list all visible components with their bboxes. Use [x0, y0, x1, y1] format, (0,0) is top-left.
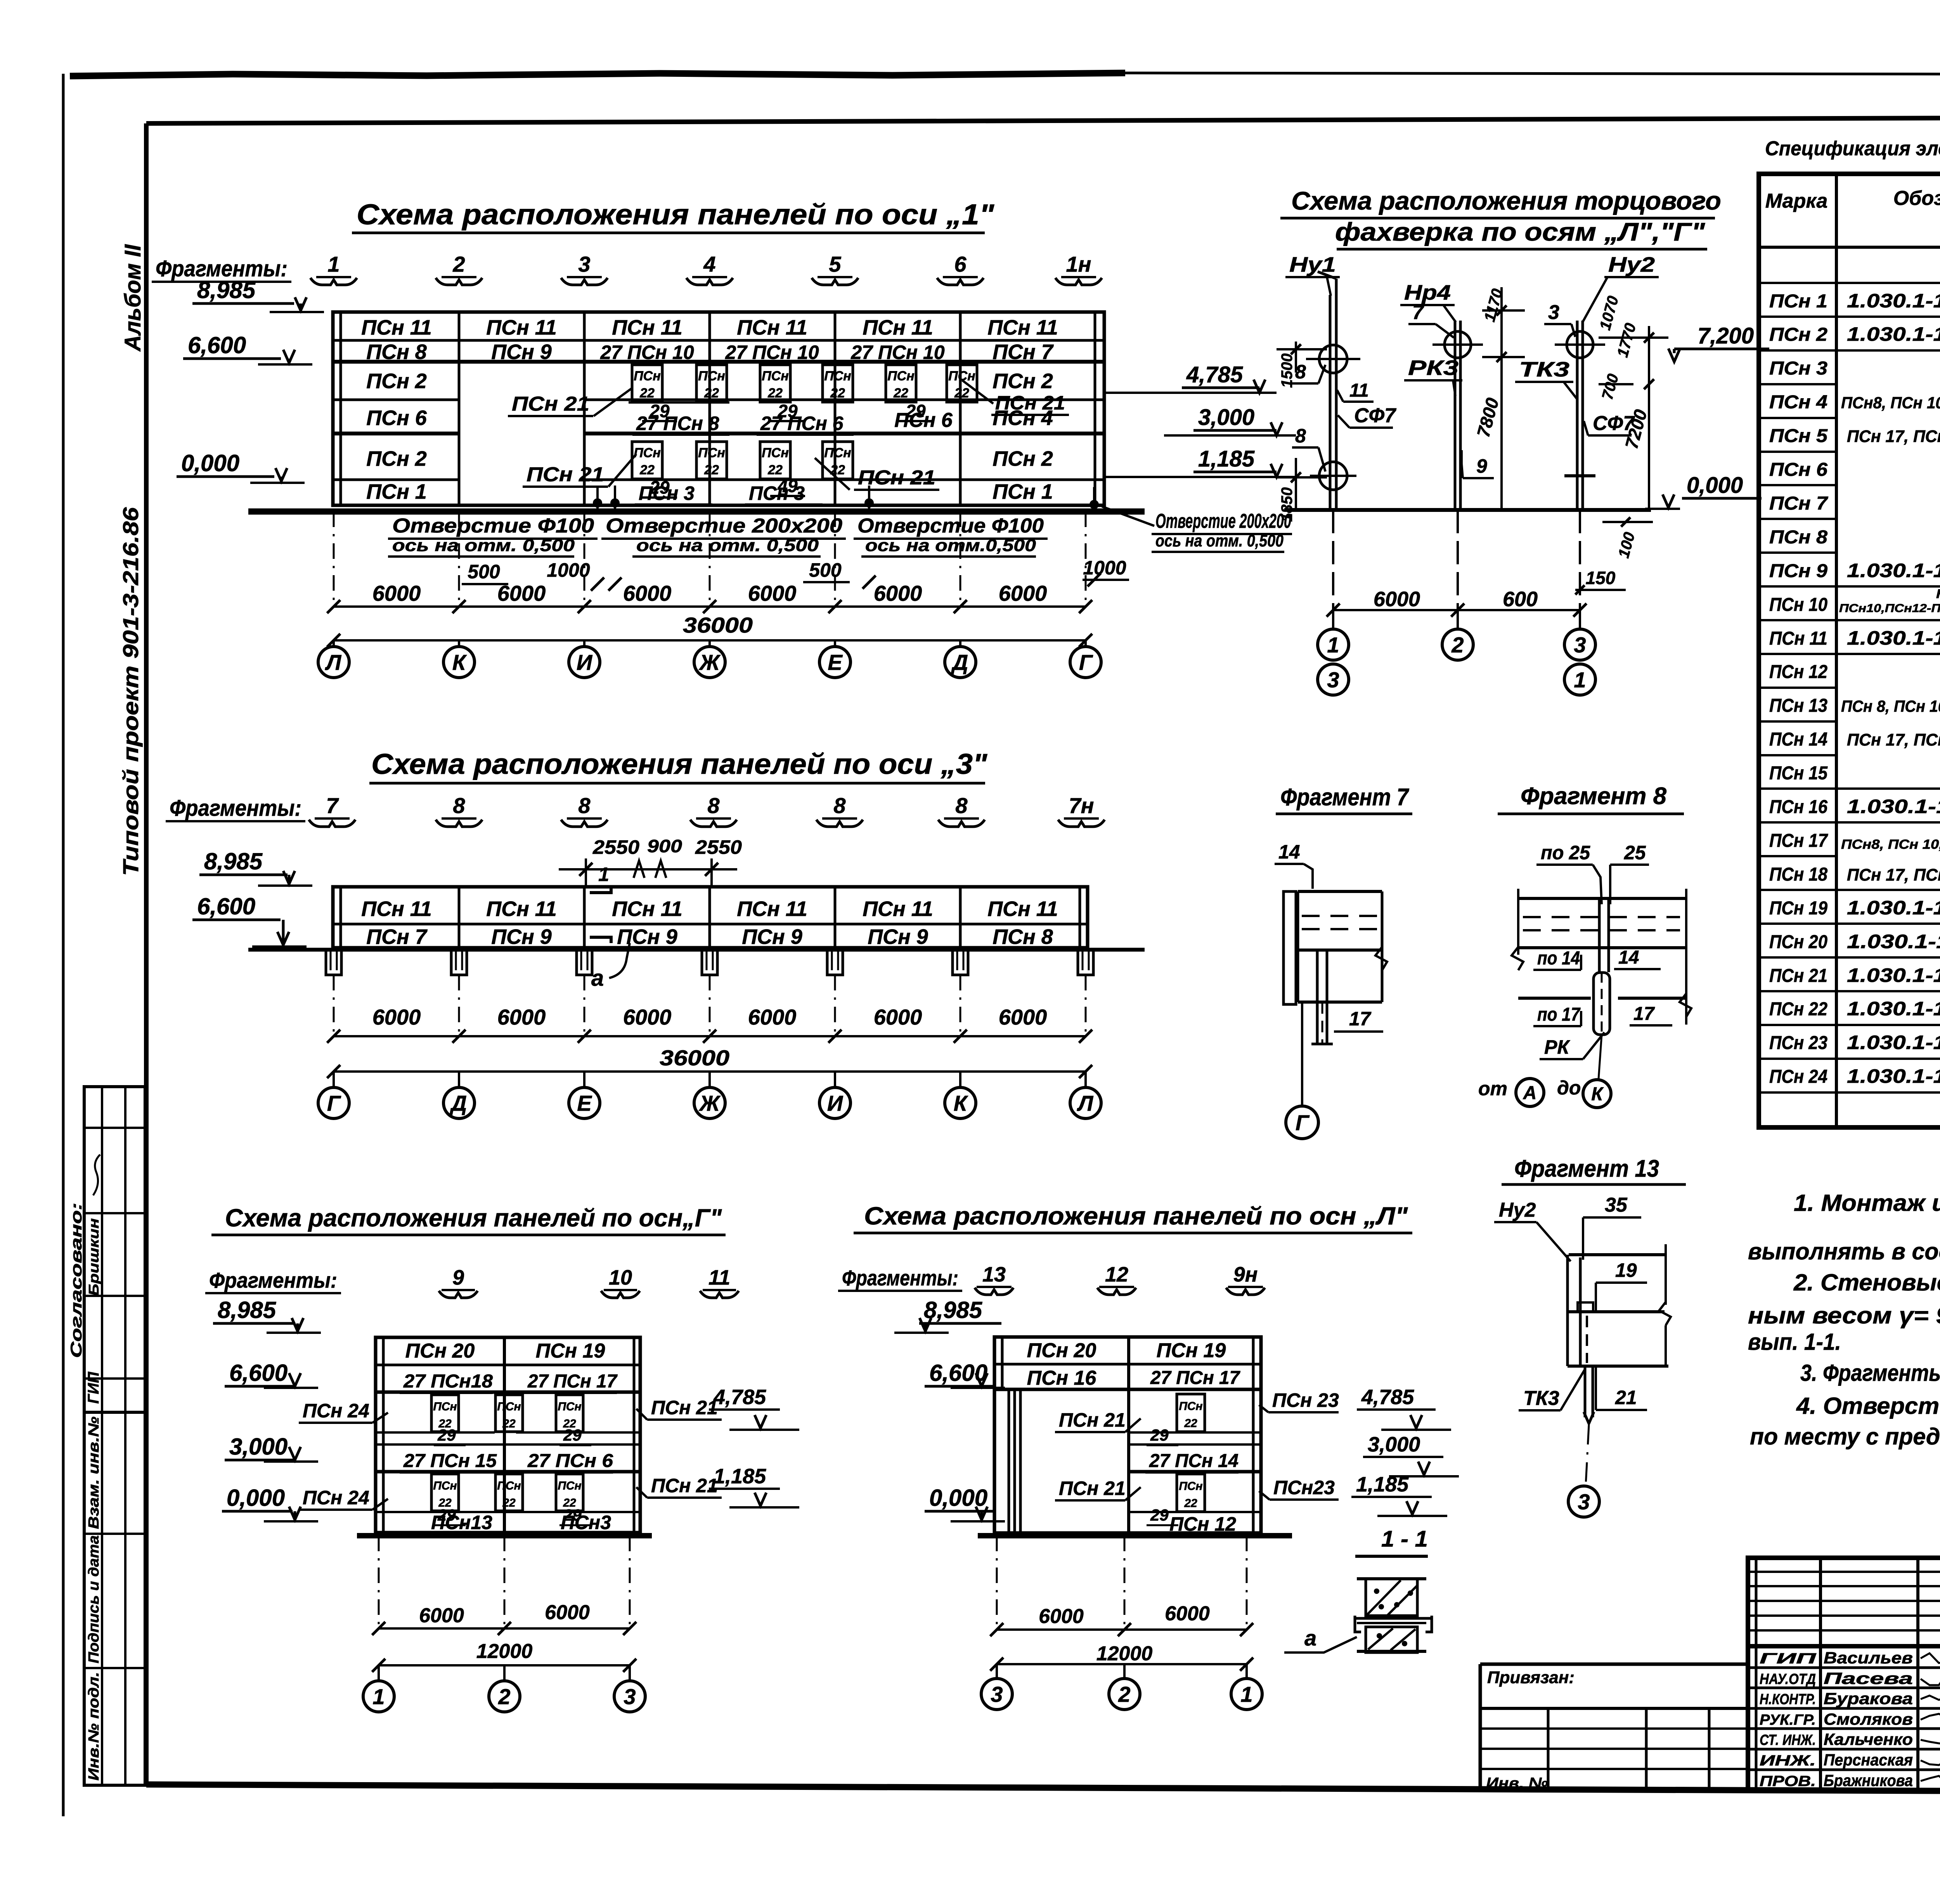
svg-text:22: 22 [767, 386, 783, 401]
spec table data row lines [1759, 316, 1836, 318]
svg-text:ПСн 9: ПСн 9 [1769, 561, 1827, 581]
fragment 8 center joint [1598, 898, 1601, 972]
svg-text:ПСн 22: ПСн 22 [1769, 999, 1827, 1020]
svg-text:по месту с предварительной рас: по месту с предварительной рассверловкой… [1750, 1424, 1940, 1450]
svg-text:ПСн 14: ПСн 14 [1769, 729, 1827, 750]
svg-text:27 ПСн 8: 27 ПСн 8 [636, 413, 719, 434]
svg-text:3: 3 [1578, 1490, 1590, 1514]
sheet outer edge left [62, 74, 65, 1816]
svg-text:ПСн23: ПСн23 [1273, 1477, 1335, 1498]
svg-text:Фрагмент 7: Фрагмент 7 [1280, 784, 1409, 811]
svg-text:Е: Е [828, 650, 843, 675]
fragment 13 panel block [1569, 1253, 1666, 1256]
svg-text:Д: Д [450, 1091, 467, 1115]
svg-text:Спецификация элементов к схеме: Спецификация элементов к схеме расположе… [1765, 137, 1940, 160]
svg-text:27 ПСн18: 27 ПСн18 [403, 1371, 493, 1392]
svg-text:1: 1 [598, 864, 609, 885]
svg-text:ПСн 7: ПСн 7 [366, 925, 428, 949]
svg-text:1.030.1-1 вып. 1-1: 1.030.1-1 вып. 1-1 [1847, 998, 1940, 1020]
svg-text:ТК3: ТК3 [1519, 358, 1569, 381]
svg-text:ПСн 2: ПСн 2 [993, 447, 1053, 470]
axis-G window band2 [431, 1474, 459, 1511]
svg-text:ПСн 12: ПСн 12 [1169, 1513, 1236, 1535]
svg-text:ПСн 23: ПСн 23 [1272, 1389, 1339, 1411]
svg-text:ПСн: ПСн [634, 446, 661, 460]
svg-text:Альбом II: Альбом II [120, 244, 145, 352]
fragment 13 axis line [1586, 1425, 1589, 1484]
svg-text:0,000: 0,000 [227, 1485, 285, 1511]
svg-text:ПСн 17, ПСн 18.: ПСн 17, ПСн 18. [1847, 427, 1940, 446]
section 1-1 lower panel [1366, 1627, 1417, 1653]
svg-text:РК3: РК3 [1408, 356, 1458, 380]
svg-text:6000: 6000 [372, 1005, 421, 1029]
spec table column lines [1835, 174, 1838, 1127]
svg-text:6000: 6000 [545, 1601, 590, 1624]
svg-text:А: А [1523, 1083, 1537, 1103]
svg-text:6000: 6000 [748, 581, 797, 605]
svg-text:1: 1 [372, 1684, 385, 1709]
svg-text:Ну1: Ну1 [1289, 253, 1336, 276]
svg-text:Фрагменты:: Фрагменты: [170, 796, 301, 821]
svg-text:Васильев: Васильев [1824, 1649, 1913, 1667]
svg-text:ПСн 6: ПСн 6 [366, 406, 427, 430]
svg-text:1000: 1000 [1083, 557, 1126, 579]
axis-3 strip bottom line [248, 948, 1145, 952]
svg-text:3. Фрагменты 1-6, 9-12 приведе: 3. Фрагменты 1-6, 9-12 приведены на лист… [1800, 1360, 1940, 1386]
svg-text:ПСн 11: ПСн 11 [987, 316, 1058, 339]
svg-text:6000: 6000 [1165, 1602, 1210, 1625]
svg-text:22: 22 [639, 386, 655, 401]
svg-text:150: 150 [1586, 568, 1616, 588]
fragment 8 column cap [1594, 973, 1610, 1035]
svg-text:10: 10 [609, 1266, 632, 1289]
svg-text:1850: 1850 [1278, 487, 1296, 522]
svg-text:4: 4 [703, 252, 715, 276]
svg-text:ПСн 21: ПСн 21 [527, 463, 604, 486]
svg-text:29: 29 [777, 401, 798, 421]
svg-text:СФ7: СФ7 [1354, 404, 1396, 427]
svg-text:вып. 1-1.: вып. 1-1. [1748, 1329, 1841, 1355]
axis-G axis dashed drops [378, 1536, 380, 1628]
fakhverk dim 100 [1602, 521, 1653, 523]
svg-text:Отверстие 200х200: Отверстие 200х200 [606, 515, 842, 537]
axis-1 elevation outline [333, 312, 1104, 505]
svg-text:ПСн 17: ПСн 17 [1769, 831, 1828, 851]
svg-text:ПСн 11: ПСн 11 [863, 897, 933, 921]
fakhverk col1 joint circles [1319, 345, 1347, 373]
svg-text:ПСн8, ПСн 10, ПСн12 - ПСн15,: ПСн8, ПСн 10, ПСн12 - ПСн15, [1841, 394, 1940, 412]
svg-text:2: 2 [452, 252, 465, 276]
svg-text:8: 8 [955, 793, 968, 818]
svg-text:6,600: 6,600 [197, 893, 255, 919]
svg-text:22: 22 [830, 386, 845, 401]
svg-text:Л: Л [1077, 1091, 1094, 1115]
svg-text:27 ПСн 17: 27 ПСн 17 [1150, 1368, 1240, 1388]
svg-text:6000: 6000 [1374, 588, 1420, 611]
svg-text:27 ПСн 10: 27 ПСн 10 [725, 342, 819, 363]
svg-text:Обозначение: Обозначение [1893, 187, 1940, 210]
svg-text:3,000: 3,000 [1368, 1433, 1420, 1456]
svg-text:6000: 6000 [874, 581, 922, 605]
svg-text:6000: 6000 [419, 1604, 464, 1627]
svg-text:Ну2: Ну2 [1608, 253, 1655, 276]
svg-text:1: 1 [1327, 633, 1339, 657]
svg-text:ПСн 2: ПСн 2 [1769, 324, 1827, 345]
svg-text:2: 2 [1451, 633, 1464, 657]
svg-text:Бришкин: Бришкин [86, 1218, 102, 1296]
fragment 7 axis circle Г [1286, 1106, 1318, 1139]
svg-text:Фрагмент 8: Фрагмент 8 [1521, 783, 1667, 810]
svg-text:21: 21 [1615, 1387, 1637, 1408]
svg-text:ПСн 21: ПСн 21 [512, 393, 589, 415]
svg-text:29: 29 [649, 401, 670, 421]
svg-text:3,000: 3,000 [229, 1434, 288, 1460]
svg-text:1,185: 1,185 [1198, 446, 1255, 472]
axis-G window band1 [431, 1395, 459, 1432]
svg-text:4,785: 4,785 [1186, 362, 1243, 387]
svg-text:1.030.1-1 вып.1-1: 1.030.1-1 вып.1-1 [1847, 796, 1940, 817]
svg-text:22: 22 [639, 463, 655, 477]
svg-text:1.030.1-1 вып. 1-1: 1.030.1-1 вып. 1-1 [1847, 323, 1940, 345]
axis-L axis circles [996, 1664, 998, 1679]
svg-text:Схема расположения панелей по: Схема расположения панелей по оси „1" [357, 198, 994, 231]
axis-G axis circles [378, 1665, 380, 1681]
svg-text:ПСн10,ПСн12-ПСн13,ПСн 17,ПСн 1: ПСн10,ПСн12-ПСн13,ПСн 17,ПСн 18 [1839, 602, 1940, 615]
svg-text:ПСн 3: ПСн 3 [749, 482, 805, 504]
svg-text:ПСн 1: ПСн 1 [366, 480, 427, 503]
svg-text:ПСн 17, ПСн 18: ПСн 17, ПСн 18 [1847, 730, 1940, 749]
svg-text:12000: 12000 [1096, 1642, 1153, 1665]
svg-text:27 ПСн 6: 27 ПСн 6 [760, 413, 844, 434]
svg-text:ПСн: ПСн [433, 1400, 457, 1413]
svg-text:ПСн 16: ПСн 16 [1769, 797, 1827, 817]
svg-text:Согласовано:: Согласовано: [68, 1203, 85, 1358]
fragment 7 column below [1316, 950, 1319, 1044]
svg-text:8,985: 8,985 [218, 1297, 277, 1323]
svg-text:900: 900 [647, 836, 682, 856]
svg-text:ным весом γ= 900 кг/м³ толщнно: ным весом γ= 900 кг/м³ толщнной 250мм по… [1748, 1302, 1940, 1328]
svg-text:СТ. ИНЖ.: СТ. ИНЖ. [1760, 1732, 1816, 1748]
axis-1 row lines [333, 339, 1104, 342]
axis-L opening struts [1008, 1389, 1010, 1533]
fakhverk below-base columns [1332, 510, 1334, 610]
fragment 13 column below [1584, 1366, 1587, 1417]
svg-text:Смоляков: Смоляков [1824, 1710, 1913, 1728]
fakhverk axis circles row2 [1318, 664, 1349, 695]
svg-text:ПСн 21: ПСн 21 [1769, 966, 1827, 986]
svg-text:ПСн: ПСн [762, 446, 789, 460]
svg-text:ПСн 19: ПСн 19 [536, 1340, 605, 1362]
svg-text:ПСн 4: ПСн 4 [1769, 392, 1827, 413]
svg-text:14: 14 [1618, 947, 1639, 968]
fakhverk base line [1284, 508, 1651, 512]
svg-text:Е: Е [577, 1091, 592, 1115]
svg-text:Отверстие Ф100: Отверстие Ф100 [857, 515, 1044, 537]
axis-3 panel strip [333, 887, 1088, 948]
svg-text:14: 14 [1278, 841, 1300, 863]
svg-text:РК: РК [1544, 1036, 1570, 1058]
svg-text:12000: 12000 [476, 1640, 533, 1663]
svg-text:22: 22 [767, 463, 783, 477]
svg-text:2550: 2550 [592, 836, 639, 858]
svg-text:8: 8 [578, 793, 591, 818]
svg-text:ПСн 9: ПСн 9 [617, 925, 677, 949]
axis-1 lower window band [632, 442, 662, 479]
svg-text:17: 17 [1349, 1008, 1372, 1030]
svg-text:ПСн 5: ПСн 5 [1769, 426, 1828, 446]
axis-G block outline [376, 1337, 640, 1533]
svg-text:4. Отверстия ф100 и размером 2: 4. Отверстия ф100 и размером 200х200 в п… [1796, 1393, 1940, 1419]
svg-text:ТК3: ТК3 [1523, 1387, 1559, 1410]
svg-text:ПСн 16: ПСн 16 [1027, 1367, 1097, 1389]
svg-text:ПСн 6: ПСн 6 [1769, 460, 1827, 480]
svg-text:22: 22 [954, 386, 969, 401]
svg-text:ПСн 11: ПСн 11 [361, 316, 432, 339]
svg-text:ось на отм.0,500: ось на отм.0,500 [865, 536, 1036, 555]
svg-text:22: 22 [704, 463, 719, 477]
svg-text:1: 1 [1240, 1682, 1252, 1706]
svg-text:Привязан:: Привязан: [1487, 1668, 1575, 1687]
svg-text:22: 22 [893, 386, 908, 401]
svg-text:1.030.1-1 вып. 1-1: 1.030.1-1 вып. 1-1 [1847, 964, 1940, 986]
svg-text:0,000: 0,000 [929, 1485, 987, 1511]
svg-text:Ж: Ж [698, 650, 721, 675]
svg-text:Отверстие 200х200: Отверстие 200х200 [1155, 510, 1291, 532]
svg-text:Схема расположения панелей по: Схема расположения панелей по осн„Г" [225, 1204, 722, 1232]
svg-text:Схема расположения панелей по: Схема расположения панелей по оси „3" [371, 748, 987, 780]
svg-text:1,185: 1,185 [1356, 1473, 1409, 1496]
svg-text:ПСн 7: ПСн 7 [993, 340, 1054, 364]
svg-text:Подпись и дата: Подпись и дата [86, 1535, 102, 1663]
svg-text:Марка: Марка [1765, 190, 1828, 212]
svg-text:27 ПСн 15: 27 ПСн 15 [403, 1451, 497, 1471]
svg-text:36000: 36000 [683, 613, 753, 637]
svg-text:ПСн: ПСн [698, 446, 725, 460]
svg-text:29: 29 [1150, 1506, 1169, 1524]
svg-text:2550: 2550 [695, 836, 742, 858]
svg-text:Схема расположения торцового: Схема расположения торцового [1291, 186, 1721, 215]
svg-text:3,000: 3,000 [1198, 405, 1254, 430]
svg-text:8: 8 [707, 793, 720, 818]
svg-text:6000: 6000 [999, 581, 1047, 605]
svg-text:1.030.1-1 вып. 1-1: 1.030.1-1 вып. 1-1 [1847, 1065, 1940, 1087]
sheet outer edge top (scan streak) [70, 73, 1125, 76]
svg-text:ПСн 8: ПСн 8 [1769, 527, 1827, 548]
svg-text:Пасева: Пасева [1824, 1669, 1913, 1687]
spec table header row line [1759, 246, 1940, 249]
svg-text:ПСн 11: ПСн 11 [863, 316, 933, 339]
axis-3 support brackets [326, 952, 341, 975]
svg-text:а: а [591, 966, 604, 991]
axis-1 ground line [248, 508, 1145, 515]
svg-text:ПСн: ПСн [762, 369, 789, 383]
axis-L ground line [978, 1533, 1292, 1538]
svg-text:Г: Г [1296, 1110, 1310, 1135]
svg-text:3: 3 [624, 1684, 636, 1709]
svg-text:29: 29 [437, 1426, 456, 1444]
svg-text:ПСн 3: ПСн 3 [1769, 358, 1827, 379]
svg-text:8: 8 [453, 793, 465, 818]
fragment 8 panel strip [1518, 897, 1686, 900]
svg-text:ПСн 3: ПСн 3 [639, 482, 695, 504]
svg-text:6000: 6000 [748, 1005, 797, 1029]
svg-text:1.030.1-1 вып.1-1: 1.030.1-1 вып.1-1 [1847, 931, 1940, 952]
svg-text:ПСн 2: ПСн 2 [366, 447, 427, 470]
svg-text:И: И [577, 650, 593, 675]
svg-text:Схема расположения панелей по: Схема расположения панелей по осн „Л" [864, 1202, 1408, 1230]
svg-text:Ж: Ж [698, 1091, 721, 1115]
axis-L window band2 [1177, 1474, 1205, 1512]
svg-text:27 ПСн 17: 27 ПСн 17 [527, 1371, 618, 1392]
svg-text:ПСн 21: ПСн 21 [651, 1475, 718, 1496]
fakhverk mid dim line 7800 [1500, 287, 1503, 510]
fakhverk column axis3 [1576, 321, 1579, 510]
svg-text:К: К [954, 1091, 968, 1115]
svg-text:Н.КОНТР.: Н.КОНТР. [1760, 1691, 1816, 1708]
svg-text:ПСн8, ПСн 10, ПСн 12- ПСн 15: ПСн8, ПСн 10, ПСн 12- ПСн 15 [1841, 837, 1940, 852]
svg-text:а: а [1304, 1626, 1316, 1650]
svg-text:13: 13 [982, 1263, 1006, 1286]
svg-text:по 14: по 14 [1537, 948, 1580, 969]
svg-text:2. Стеновые панели приняты из: 2. Стеновые панели приняты из керамзитоб… [1793, 1269, 1940, 1295]
axis-L right half rows [1129, 1431, 1261, 1434]
svg-text:ПСн: ПСн [433, 1479, 457, 1492]
svg-text:7,200: 7,200 [1697, 323, 1754, 349]
fakhverk column axis1 [1329, 295, 1332, 510]
axis-L axis dashed drops [996, 1536, 998, 1630]
svg-text:25: 25 [1624, 842, 1646, 864]
fakhverk axis circles row1 [1332, 610, 1334, 629]
svg-text:3: 3 [1548, 301, 1559, 324]
svg-text:Фрагмент 13: Фрагмент 13 [1514, 1155, 1659, 1182]
svg-text:6000: 6000 [874, 1005, 922, 1029]
svg-text:6000: 6000 [1039, 1605, 1084, 1628]
svg-text:ПСн13: ПСн13 [431, 1512, 492, 1533]
axis-G ground line [357, 1533, 652, 1538]
svg-text:ПСн 11: ПСн 11 [486, 897, 557, 921]
svg-text:ПСн 20: ПСн 20 [1769, 932, 1827, 952]
svg-text:27 ПСн 14: 27 ПСн 14 [1149, 1451, 1238, 1471]
svg-text:до: до [1557, 1077, 1581, 1099]
section 1-1 upper panel [1357, 1577, 1426, 1580]
svg-text:ПСн 18: ПСн 18 [1769, 864, 1827, 885]
fragment 7 panel section [1284, 891, 1296, 1004]
svg-text:ПСн 10: ПСн 10 [1769, 595, 1827, 615]
svg-text:ПСн 1: ПСн 1 [993, 480, 1053, 503]
svg-text:К: К [452, 650, 467, 675]
svg-text:500: 500 [809, 559, 842, 581]
svg-text:ПСн 9: ПСн 9 [491, 925, 552, 949]
svg-text:5: 5 [829, 252, 841, 276]
title block names rows [1748, 1646, 1940, 1649]
svg-text:ПСн: ПСн [558, 1479, 581, 1492]
svg-text:ПСн 11: ПСн 11 [737, 897, 807, 921]
svg-text:Г: Г [327, 1091, 341, 1115]
svg-text:Нр4: Нр4 [1404, 281, 1451, 304]
fragment 13 right dim line with break [1665, 1244, 1667, 1305]
svg-text:ПСн 1: ПСн 1 [1769, 291, 1827, 312]
svg-text:1н: 1н [1066, 252, 1091, 276]
svg-text:29: 29 [905, 401, 926, 421]
svg-text:3: 3 [1327, 668, 1339, 692]
axis-1 upper window band [632, 365, 662, 402]
axis-1 axis circles [333, 640, 335, 647]
svg-text:ось на отм. 0,500: ось на отм. 0,500 [636, 536, 819, 555]
svg-text:Ну2: Ну2 [1499, 1199, 1536, 1221]
fragment 7 axis line to circle Г [1301, 1002, 1303, 1106]
svg-text:Г: Г [1079, 650, 1093, 675]
svg-text:22: 22 [502, 1417, 516, 1430]
svg-text:3: 3 [1574, 633, 1586, 657]
svg-text:7: 7 [326, 793, 339, 818]
svg-text:ПСн 11: ПСн 11 [612, 897, 682, 921]
svg-text:19: 19 [1615, 1259, 1637, 1281]
svg-text:0,000: 0,000 [181, 450, 239, 476]
svg-text:ПСн 24: ПСн 24 [1769, 1066, 1827, 1087]
svg-text:36000: 36000 [660, 1046, 729, 1070]
svg-text:1.030.1-1 вып. 1-1: 1.030.1-1 вып. 1-1 [1847, 290, 1940, 312]
axis-L window band1 [1177, 1394, 1205, 1432]
svg-text:7: 7 [1412, 301, 1424, 324]
svg-text:ось на отм. 0,500: ось на отм. 0,500 [392, 536, 575, 555]
svg-text:ПСн 11: ПСн 11 [1769, 628, 1827, 649]
svg-text:ПСн 9: ПСн 9 [742, 925, 802, 949]
svg-text:РУК.ГР.: РУК.ГР. [1760, 1712, 1816, 1728]
svg-text:27 ПСн 10: 27 ПСн 10 [600, 342, 694, 363]
svg-text:ПСн 20: ПСн 20 [1027, 1339, 1096, 1362]
svg-text:ПСн 21: ПСн 21 [995, 392, 1065, 414]
svg-text:ПСн: ПСн [497, 1479, 521, 1492]
svg-text:Перснаская: Перснаская [1824, 1751, 1913, 1769]
svg-text:8,985: 8,985 [924, 1297, 983, 1323]
svg-text:Фрагменты:: Фрагменты: [842, 1266, 958, 1290]
svg-text:8,985: 8,985 [197, 277, 256, 303]
svg-text:ПСн 8: ПСн 8 [366, 340, 427, 364]
title block small grid top-left [1755, 1558, 1758, 1790]
svg-text:КЖИ-ПСн3 - ПСн8: КЖИ-ПСн3 - ПСн8 [1936, 587, 1940, 601]
fragment 8 mid horizontal [1518, 997, 1591, 1000]
svg-text:по 25: по 25 [1541, 842, 1590, 864]
axis-1 axis dashed drops [333, 512, 335, 607]
svg-text:ПСн3: ПСн3 [561, 1512, 611, 1533]
svg-text:ось на отм. 0,500: ось на отм. 0,500 [1155, 531, 1284, 550]
svg-text:ПСн: ПСн [824, 446, 851, 460]
svg-text:8,985: 8,985 [204, 848, 263, 874]
svg-text:ПСн 2: ПСн 2 [366, 369, 427, 393]
svg-text:27 ПСн 10: 27 ПСн 10 [850, 342, 944, 363]
svg-text:35: 35 [1605, 1194, 1628, 1216]
fakhverk right dims 1070 1770 700 7200 [1648, 326, 1650, 510]
axis-3 axis dashed drops [333, 975, 335, 1036]
svg-text:Бражникова: Бражникова [1824, 1771, 1913, 1790]
svg-text:4,785: 4,785 [713, 1386, 766, 1409]
svg-text:1,185: 1,185 [714, 1465, 766, 1488]
svg-text:Инв. №: Инв. № [1486, 1775, 1548, 1792]
svg-text:6,600: 6,600 [229, 1360, 288, 1386]
svg-text:2: 2 [1118, 1682, 1130, 1706]
axis-G row lines [376, 1364, 640, 1366]
fakhverk left dim 1850 [1295, 458, 1297, 510]
svg-text:Фрагменты:: Фрагменты: [209, 1268, 337, 1292]
svg-text:22: 22 [1184, 1417, 1197, 1430]
svg-text:Взам. инв.№: Взам. инв.№ [86, 1417, 102, 1529]
svg-text:ПСн 21: ПСн 21 [1059, 1409, 1126, 1431]
svg-text:8: 8 [833, 793, 846, 818]
svg-text:4,785: 4,785 [1361, 1386, 1414, 1409]
svg-text:29: 29 [1150, 1426, 1169, 1444]
svg-text:И: И [827, 1091, 844, 1115]
svg-text:1.030.1-1 вып. 1-1: 1.030.1-1 вып. 1-1 [1847, 627, 1940, 649]
